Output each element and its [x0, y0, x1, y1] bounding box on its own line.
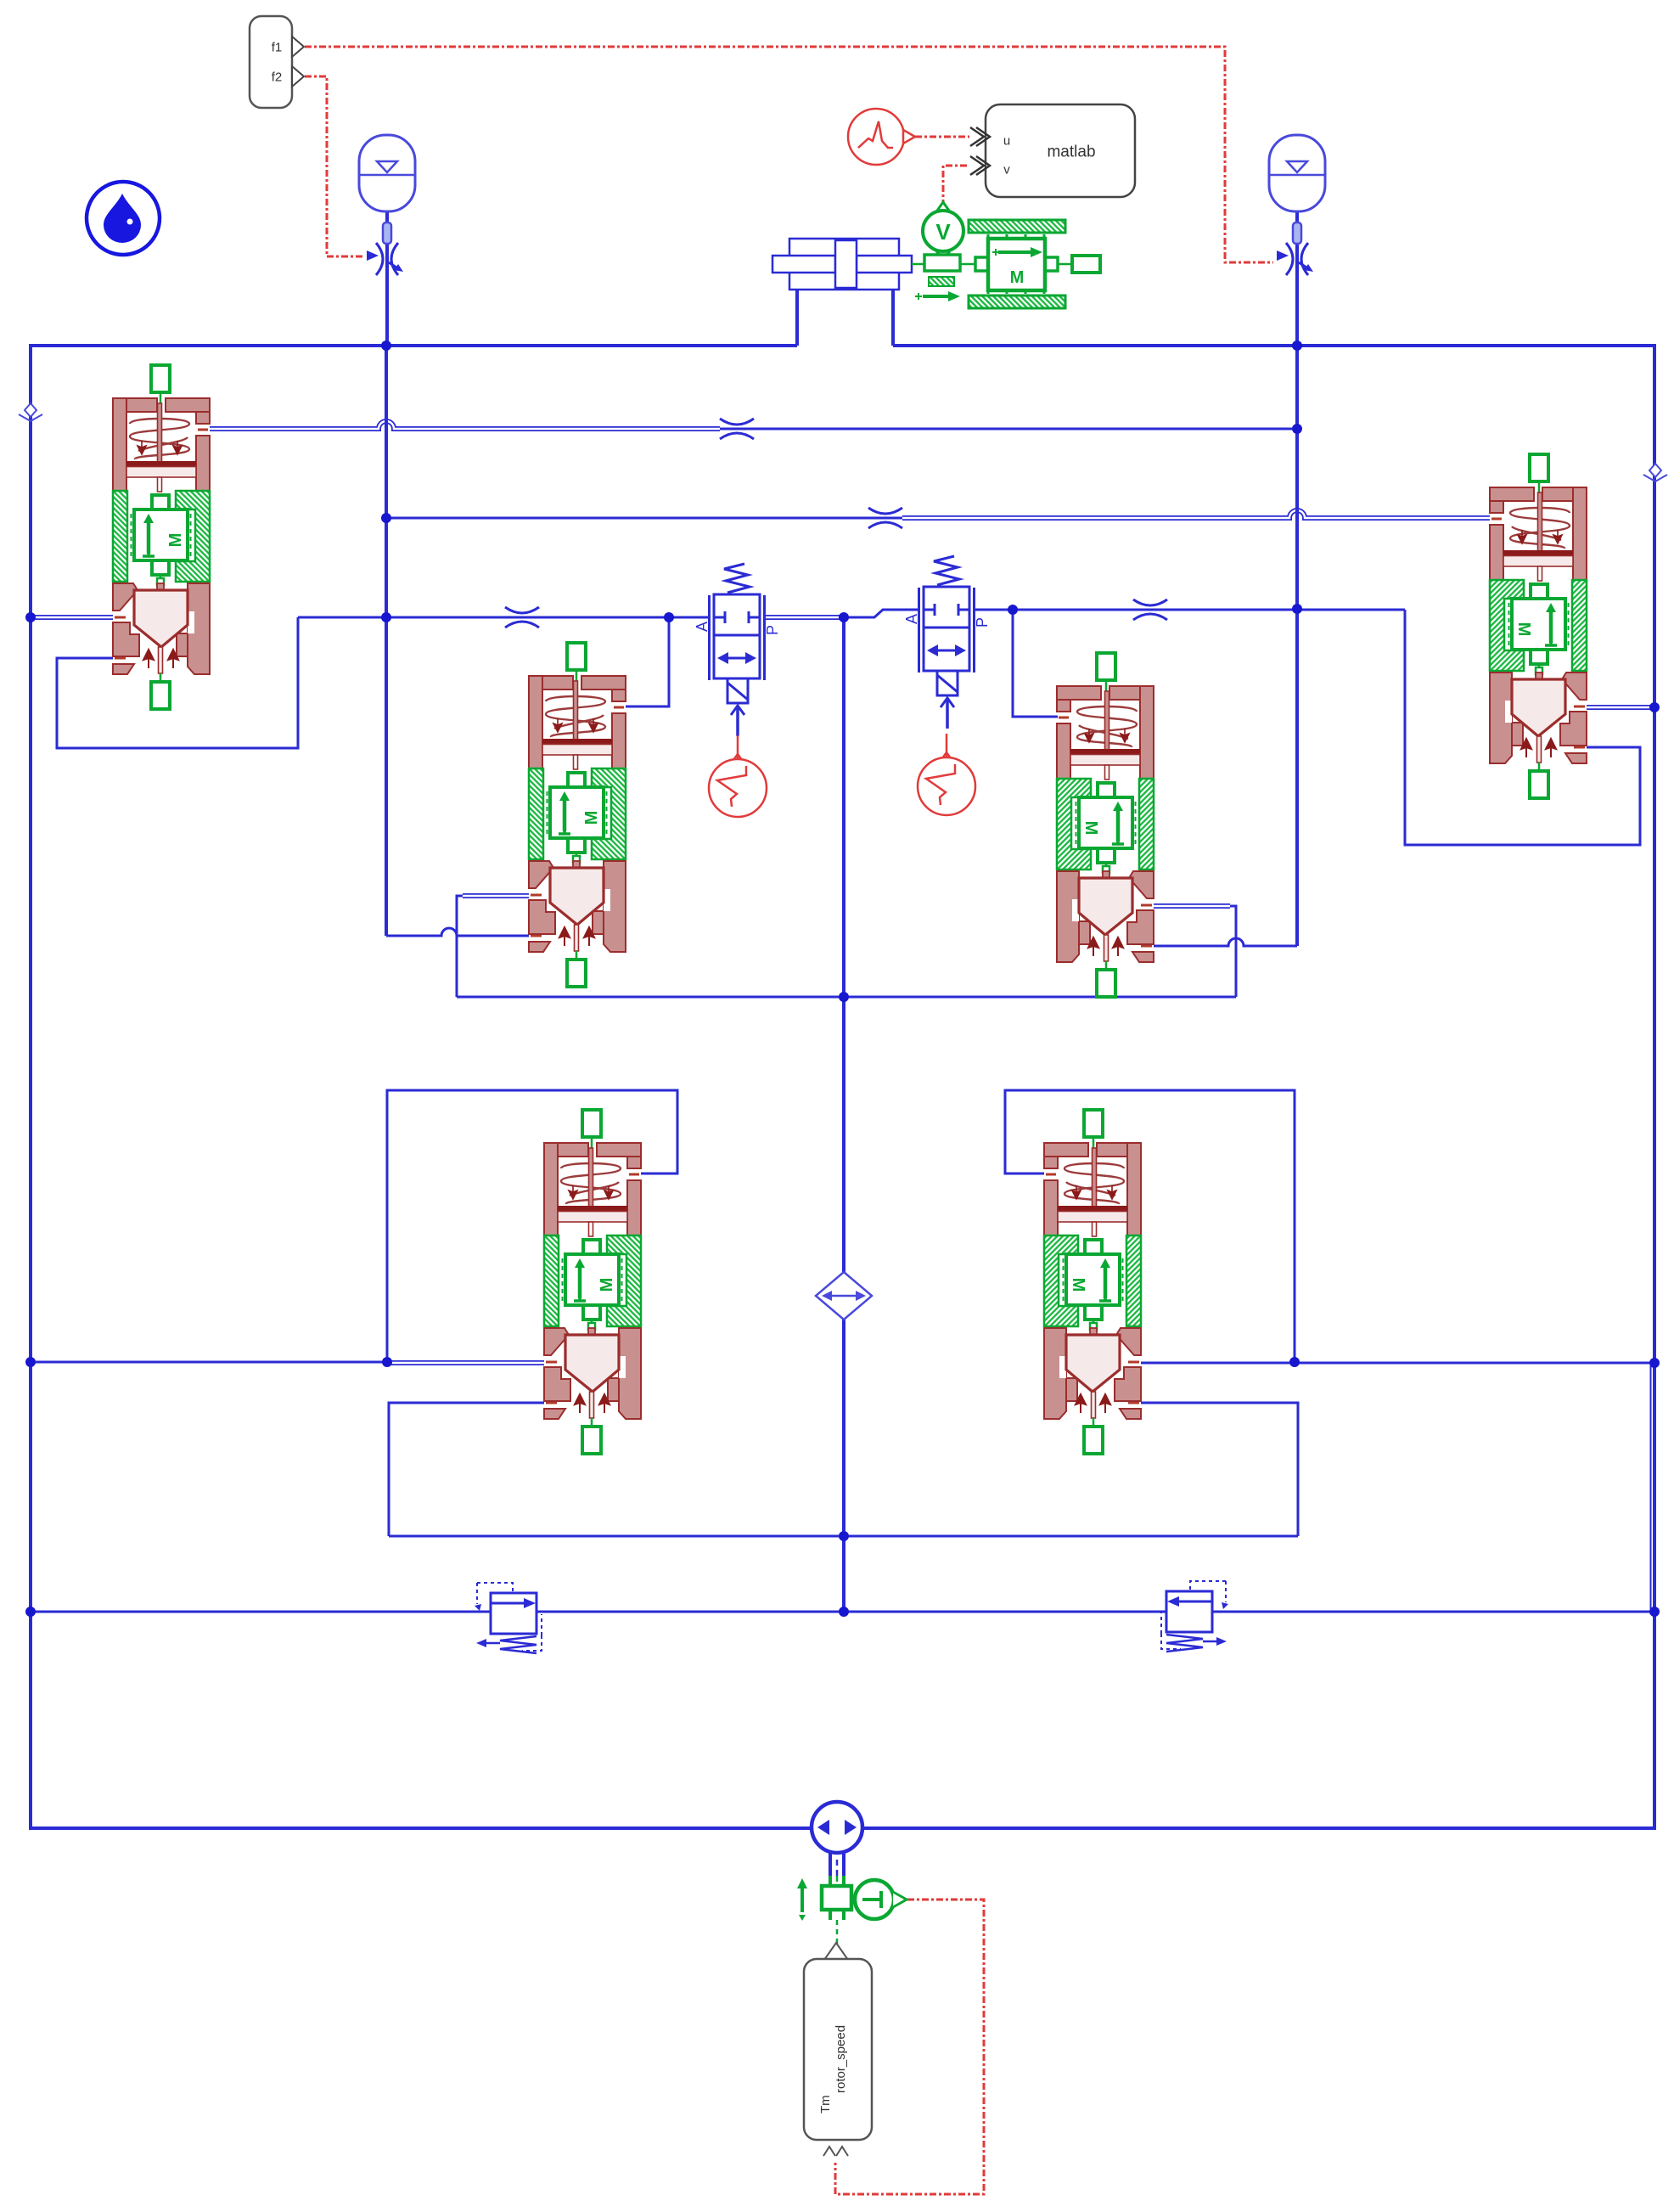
wire: column x1528 into valve MR lower port with jump over x1456: [1154, 938, 1297, 946]
wire: row A right (throttle to column x1528): [720, 428, 1297, 431]
component: flow meter diamond: [816, 1272, 872, 1320]
component: end stop: [1058, 256, 1100, 273]
component: matlab block: [970, 104, 1135, 197]
component: rotary speed arrow: [797, 1878, 807, 1921]
wire: right bus doubled segment: [1650, 1365, 1652, 1610]
component: servo valve R (mirrored): [1490, 454, 1587, 798]
wire: row B left (column x455 to throttle): [386, 517, 902, 520]
wire: row E right (valve LR upper poppet port to right bus): [1141, 1362, 1654, 1365]
svg-text:V: V: [935, 219, 951, 245]
component: mass with ground rails: [969, 220, 1065, 308]
wire: valve MR upper poppet port loop: [1154, 906, 1236, 997]
wire: valve L lower poppet loop: [57, 617, 298, 748]
signal wire: V sensor to matlab v: [943, 166, 969, 206]
component: velocity sensor V: [923, 202, 963, 258]
svg-text:matlab: matlab: [1047, 144, 1095, 161]
component: servo valve MR (mirrored): [1057, 653, 1154, 997]
svg-text:M: M: [1010, 268, 1025, 287]
component: pilot signal source 1: [709, 735, 767, 817]
component: rotary junction: [822, 1886, 851, 1910]
wire: left accumulator drop line: [385, 211, 389, 346]
wire: cylinder left leg: [795, 290, 799, 346]
throttle: row A: [720, 419, 754, 439]
component: hydraulic pump: [812, 1802, 862, 1853]
wire: row D crossbar: [457, 996, 1236, 999]
wire: row A left (valve L spring port to throttle): [210, 421, 720, 429]
wire: valve ML upper poppet port loop to center column: [457, 896, 529, 997]
signal wire: f2 output to left throttle pilot: [305, 76, 363, 256]
svg-text:f2: f2: [272, 70, 283, 85]
wire: valve R upper poppet port to right bus: [1587, 705, 1654, 710]
wire: row C left segment with throttle: [298, 616, 710, 619]
wire: outer supply loop (top bus, left bus, bottom bus, right bus): [31, 346, 1654, 1828]
wire: valve1 P to center junction (double): [765, 615, 844, 620]
component: directional valve 2: [903, 556, 991, 729]
component: fluid properties icon: [87, 182, 160, 255]
wire: column x1528: [1295, 346, 1299, 946]
svg-text:Tm: Tm: [818, 2095, 833, 2114]
wire: column x455: [385, 346, 388, 936]
svg-text:f1: f1: [272, 41, 283, 55]
component: pump shaft: [830, 1853, 844, 1920]
throttle: row C left: [505, 607, 539, 628]
wire: valve2 P to row C right with throttle: [975, 609, 1405, 611]
throttle: row C right: [1133, 599, 1167, 620]
signal wire: ramp source to matlab u: [915, 136, 969, 138]
component: relief valve left: [475, 1583, 542, 1653]
component: directional valve 1: [694, 564, 781, 736]
signal wire: torque sensor to rotor_speed: [835, 1900, 984, 2194]
wire: center junction jog up to valve2 A: [844, 610, 918, 617]
signal wire: f1 output to right throttle pilot: [305, 47, 1273, 262]
wire: bus stub to valve L upper poppet port: [31, 615, 113, 620]
wire: valve LR lower poppet loop: [1141, 1403, 1298, 1536]
wire: row E left (bus to valve LL upper poppet port): [31, 1361, 387, 1364]
component: hydraulic cylinder: [772, 239, 912, 290]
component: servo valve LL: [544, 1110, 641, 1454]
svg-text:u: u: [1003, 134, 1010, 149]
component: rotor_speed source block: [804, 1943, 872, 2156]
component: ramp signal source: [848, 109, 915, 165]
wire: row C right turns down to valve R lower loop: [1405, 610, 1640, 845]
wire: valve LL lower poppet loop to row F: [389, 1403, 544, 1536]
wire: valve2 P junction down to valve MR spring port: [1013, 610, 1058, 717]
component: servo valve ML: [529, 643, 626, 987]
component: relief valve right: [1161, 1581, 1228, 1652]
wire: valve1 A junction down to valve ML spring port: [626, 617, 669, 706]
wire: valve LL spring loop: [387, 1090, 677, 1362]
wire: row B right (throttle to valve R spring port): [902, 510, 1490, 518]
wire: right accumulator drop line: [1295, 211, 1299, 346]
component: left accumulator with orifice and pilot throttle: [359, 135, 415, 275]
throttle: row B: [868, 508, 902, 528]
component: pilot signal source 2: [918, 734, 975, 815]
component: rod coupler and speed pickup: [912, 255, 975, 301]
component: torque sensor: [855, 1880, 907, 1919]
component: servo valve L: [113, 365, 210, 709]
component: port marker left: [19, 403, 42, 421]
svg-text:rotor_speed: rotor_speed: [834, 2025, 848, 2093]
component: servo valve LR (mirrored): [1044, 1110, 1141, 1454]
wire: relief valve row: [31, 1611, 1654, 1613]
component: f1 f2 signal source block: [250, 16, 304, 108]
component: green dashed shaft link: [836, 1920, 839, 1945]
wire: center column x994: [842, 617, 845, 1612]
wire: row F crossbar: [389, 1535, 1298, 1538]
wire: column x455 into valve ML lower port with jump over x538: [386, 928, 529, 936]
component: right accumulator with orifice and pilot throttle: [1269, 135, 1325, 275]
component: port marker right: [1643, 464, 1667, 481]
wire: cylinder right leg: [891, 290, 895, 346]
svg-text:v: v: [1003, 163, 1010, 177]
wire: valve LR spring loop: [1005, 1090, 1295, 1362]
